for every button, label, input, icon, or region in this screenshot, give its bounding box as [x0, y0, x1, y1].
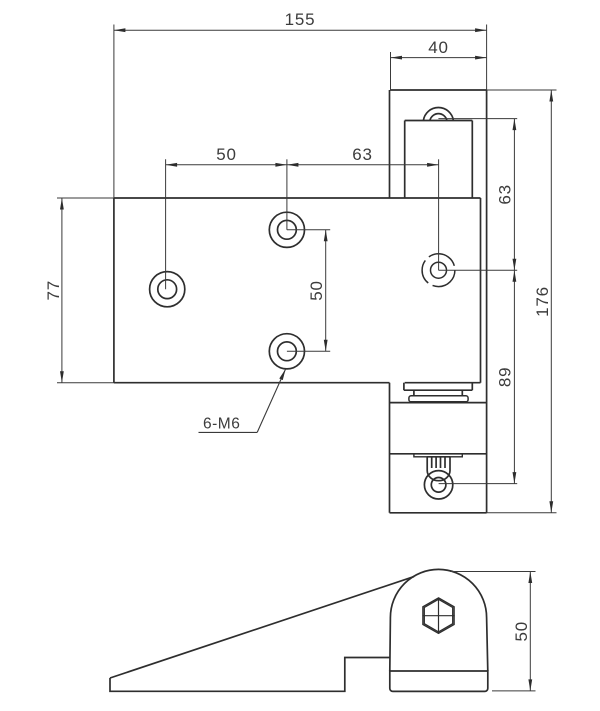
svg-text:50: 50 [216, 145, 237, 164]
svg-text:63: 63 [352, 145, 373, 164]
svg-text:40: 40 [428, 38, 449, 57]
svg-text:63: 63 [495, 184, 514, 205]
svg-text:89: 89 [495, 367, 514, 388]
svg-text:176: 176 [533, 286, 552, 317]
svg-text:155: 155 [285, 10, 316, 29]
svg-text:50: 50 [512, 621, 531, 642]
svg-text:77: 77 [44, 280, 63, 301]
svg-text:6-M6: 6-M6 [203, 416, 240, 433]
svg-text:50: 50 [307, 280, 326, 301]
